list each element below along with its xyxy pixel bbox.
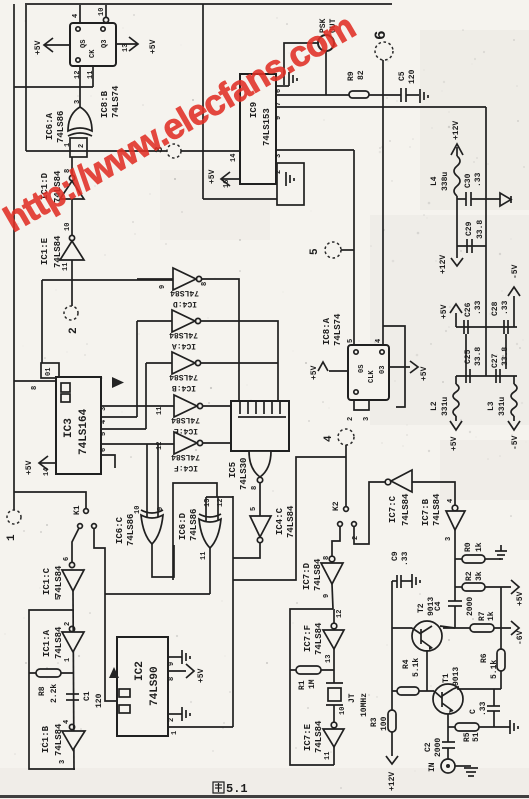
svg-text:10: 10 xyxy=(134,506,142,514)
inverter IC7:C xyxy=(385,479,391,485)
svg-text:5.1: 5.1 xyxy=(226,782,248,796)
svg-text:1: 1 xyxy=(6,534,18,541)
svg-text:IC4:D: IC4:D xyxy=(173,299,197,308)
+5V arrow at IC9 pin16 xyxy=(222,178,240,180)
wire IC4:F output xyxy=(203,442,231,444)
IC8:B 74LS74 flip-flop box xyxy=(70,23,116,66)
wire y580 link xyxy=(233,457,346,580)
svg-text:8: 8 xyxy=(168,677,176,681)
svg-text:IC6:D: IC6:D xyxy=(178,512,188,540)
svg-text:5.1k: 5.1k xyxy=(412,658,421,677)
svg-text:.33: .33 xyxy=(501,300,510,315)
wire IC8:B pin11 down xyxy=(92,66,94,87)
svg-text:1k: 1k xyxy=(475,542,484,552)
wire y594 xyxy=(105,593,210,595)
svg-text:74LS84: 74LS84 xyxy=(54,565,64,598)
svg-text:33.8: 33.8 xyxy=(501,347,510,366)
svg-text:3: 3 xyxy=(363,417,371,421)
wire right rail x486 xyxy=(485,107,487,376)
svg-text:3: 3 xyxy=(74,100,82,104)
wire K2 left to IC7:D xyxy=(332,526,340,556)
svg-text:C: C xyxy=(469,709,478,714)
ground after C5 xyxy=(419,89,421,103)
svg-text:331u: 331u xyxy=(498,397,507,416)
svg-text:IC1:C: IC1:C xyxy=(42,567,52,595)
PSK OUT terminal xyxy=(318,35,334,51)
svg-text:IC7:E: IC7:E xyxy=(303,723,313,751)
svg-text:IC1:A: IC1:A xyxy=(42,629,52,657)
svg-text:+12V: +12V xyxy=(452,121,461,140)
ground at IC2 upper xyxy=(181,650,183,664)
wire K1 right down to IC2 xyxy=(94,528,117,701)
svg-text:74LS84: 74LS84 xyxy=(432,493,442,526)
inverter IC1:B xyxy=(69,724,74,729)
svg-text:IC4:B: IC4:B xyxy=(172,383,196,392)
svg-text:CLK: CLK xyxy=(368,370,376,383)
wire PSK down to R9 line xyxy=(325,51,327,95)
capacitor C27 xyxy=(495,369,497,383)
svg-text:82: 82 xyxy=(357,70,366,80)
wire feedback x203 from top border xyxy=(202,4,204,199)
svg-text:74LS84: 74LS84 xyxy=(171,452,200,461)
svg-text:33.8: 33.8 xyxy=(476,220,485,239)
wire x42 down to IC3 xyxy=(41,280,43,363)
svg-text:2.2k: 2.2k xyxy=(50,684,59,703)
wire to node 2 xyxy=(71,260,73,306)
capacitor C28 xyxy=(503,320,505,334)
svg-text:2: 2 xyxy=(64,622,72,626)
svg-text:QS: QS xyxy=(80,40,88,48)
svg-text:Q3: Q3 xyxy=(101,40,109,48)
svg-text:8: 8 xyxy=(201,282,209,286)
svg-text:IC7:D: IC7:D xyxy=(302,562,312,590)
svg-text:IC4:C: IC4:C xyxy=(275,507,285,535)
svg-text:R7: R7 xyxy=(478,611,487,621)
lower rail with C25 C27 xyxy=(456,375,517,377)
svg-text:74LS86: 74LS86 xyxy=(56,111,66,143)
+5V arrow left of IC8:B xyxy=(45,44,70,46)
wire L4 to C30 line xyxy=(456,196,458,199)
resistor R5 51 xyxy=(448,726,455,728)
svg-text:12: 12 xyxy=(336,610,344,618)
wire IC7:B out down with C4 xyxy=(454,530,456,601)
capacitor C1 xyxy=(66,693,79,695)
wire IC8:A bottom pins loop xyxy=(354,400,369,410)
svg-text:.33: .33 xyxy=(474,300,483,315)
svg-text:74LS84: 74LS84 xyxy=(401,493,411,526)
wire y497 xyxy=(206,496,233,498)
xor gate IC6:C xyxy=(146,444,148,517)
svg-text:+5V: +5V xyxy=(208,169,217,184)
wire T1 emitter down xyxy=(447,714,449,742)
wire T2 base from x392 xyxy=(392,627,412,629)
svg-text:0S: 0S xyxy=(358,365,366,373)
svg-text:IC5: IC5 xyxy=(228,462,238,478)
svg-text:74LS84: 74LS84 xyxy=(286,505,296,538)
svg-text:338u: 338u xyxy=(441,172,450,191)
wire IC2 lower pin to ground xyxy=(168,713,182,715)
switch K1 xyxy=(14,492,86,508)
svg-text:1: 1 xyxy=(171,731,179,735)
svg-text:L3: L3 xyxy=(487,401,496,411)
wire IC3 QA to IC4:E input xyxy=(101,405,174,407)
wire pin with bubble to top border xyxy=(105,5,107,17)
svg-text:5: 5 xyxy=(100,432,108,436)
resistor R2 3k with +5V xyxy=(455,586,462,588)
+5V arrow at IC3 pin14 xyxy=(40,462,56,464)
svg-text:C27: C27 xyxy=(491,353,500,368)
svg-text:IC1:B: IC1:B xyxy=(41,725,51,753)
svg-text:IC8:B: IC8:B xyxy=(100,90,110,118)
svg-text:74LS84: 74LS84 xyxy=(169,330,198,339)
inverter IC1:A xyxy=(69,626,74,631)
wire IC7:E out xyxy=(333,747,335,765)
node 5 xyxy=(325,242,341,258)
svg-text:3: 3 xyxy=(59,760,67,764)
svg-text:2: 2 xyxy=(68,327,80,334)
wire IC7:C input from IC7:B xyxy=(412,482,455,505)
ground triangle right of C30 xyxy=(500,193,511,206)
svg-text:74LS84: 74LS84 xyxy=(54,723,64,756)
IC5 74LS30 box xyxy=(231,401,289,451)
svg-text:IC7:B: IC7:B xyxy=(421,498,431,526)
input box under IC6:A xyxy=(70,138,87,157)
svg-text:5.1k: 5.1k xyxy=(490,660,499,679)
+5V arrow left of IC8:A xyxy=(329,370,348,372)
ground at IC9 pin6 xyxy=(288,72,290,86)
svg-text:R8: R8 xyxy=(38,686,47,696)
wire T1 collector to R6 rail xyxy=(453,687,501,689)
wire branch y326 to x405 xyxy=(383,326,405,407)
svg-text:C28: C28 xyxy=(491,301,500,316)
svg-text:R1: R1 xyxy=(298,680,307,690)
ground right of IN xyxy=(455,765,471,767)
svg-text:-5V: -5V xyxy=(511,264,520,279)
svg-text:74LS153: 74LS153 xyxy=(262,108,272,146)
svg-text:13: 13 xyxy=(325,655,333,663)
svg-text:IN: IN xyxy=(428,762,437,772)
inverter IC4:A xyxy=(137,320,172,322)
capacitor C30 xyxy=(457,198,466,200)
svg-text:.33: .33 xyxy=(474,172,483,187)
node 2 xyxy=(64,306,78,320)
svg-text:8: 8 xyxy=(251,486,259,490)
svg-text:K1: K1 xyxy=(73,505,82,515)
crystal JT xyxy=(326,682,343,684)
svg-text:1M: 1M xyxy=(308,679,317,689)
svg-text:T1: T1 xyxy=(442,673,451,683)
wire T2 collector up xyxy=(440,626,455,628)
wire x26 from top border xyxy=(25,5,27,151)
svg-text:+5V: +5V xyxy=(516,591,525,606)
wire PSK loop xyxy=(284,43,318,85)
svg-text:74LS74: 74LS74 xyxy=(111,85,121,118)
xor gate IC6:D xyxy=(205,497,207,521)
transistor T1 9013 xyxy=(433,684,463,714)
svg-text:1k: 1k xyxy=(487,611,496,621)
svg-text:1: 1 xyxy=(64,658,72,662)
wire IC3 QB stub xyxy=(101,416,137,418)
wire IC4:E output xyxy=(203,405,231,407)
wire IC3 QC stub xyxy=(101,428,146,430)
svg-text:3: 3 xyxy=(275,154,283,158)
svg-text:9: 9 xyxy=(323,594,331,598)
wire IC1:C out main oscillator line xyxy=(73,591,74,770)
resistor R8 xyxy=(29,672,74,674)
svg-text:11: 11 xyxy=(62,263,70,271)
capacitor C .33 to ground xyxy=(493,689,495,706)
svg-text:74LS86: 74LS86 xyxy=(189,509,199,541)
svg-text:4: 4 xyxy=(63,720,71,724)
svg-text:14: 14 xyxy=(43,468,51,476)
IC2 74LS90 box xyxy=(117,637,168,736)
svg-text:12: 12 xyxy=(217,499,225,507)
inductor L3 xyxy=(513,376,515,384)
wire x457 down xyxy=(456,199,458,248)
svg-text:11: 11 xyxy=(156,407,164,415)
svg-text:2: 2 xyxy=(168,718,176,722)
capacitor C26 xyxy=(463,320,465,334)
node 3 xyxy=(167,144,181,158)
svg-text:6: 6 xyxy=(100,448,108,452)
svg-text:2: 2 xyxy=(347,417,355,421)
inverter IC1:C xyxy=(69,562,74,567)
wire x392 vertical T2 base rail xyxy=(391,581,393,710)
wire IC3 QD to IC4:F input xyxy=(101,443,174,445)
svg-text:74LS84: 74LS84 xyxy=(53,235,63,268)
wire IC8:B pin12 down xyxy=(79,66,81,110)
caption 图5.1 xyxy=(213,782,224,793)
svg-text:74LS84: 74LS84 xyxy=(169,372,198,381)
svg-text:+5V: +5V xyxy=(149,39,158,54)
wire IC7:F vertical xyxy=(333,609,335,623)
inverter IC4:B xyxy=(146,362,172,364)
wire K1 left to IC1:C xyxy=(72,528,79,562)
IN terminal xyxy=(441,759,455,773)
svg-text:IC7:F: IC7:F xyxy=(303,625,313,652)
svg-text:C30: C30 xyxy=(464,173,473,188)
wire node6 down to IC8:A xyxy=(382,60,384,345)
svg-text:+5V: +5V xyxy=(34,40,43,55)
wire IC2 pin to ground xyxy=(168,656,182,658)
svg-text:C29: C29 xyxy=(465,221,474,236)
svg-text:6: 6 xyxy=(372,30,390,40)
svg-text:10: 10 xyxy=(98,8,106,16)
svg-text:+5V: +5V xyxy=(440,304,449,319)
svg-text:+5V: +5V xyxy=(197,668,206,683)
frame top border wire xyxy=(25,3,392,5)
svg-text:CK: CK xyxy=(89,49,97,58)
svg-text:IC7:C: IC7:C xyxy=(388,495,398,523)
svg-text:C1: C1 xyxy=(83,691,92,701)
transistor T2 9013 xyxy=(412,621,442,651)
svg-text:L2: L2 xyxy=(430,401,439,411)
svg-text:C26: C26 xyxy=(464,302,473,317)
svg-text:74LS84: 74LS84 xyxy=(314,720,324,753)
svg-text:10MHz: 10MHz xyxy=(360,693,369,717)
inverter IC7:B xyxy=(452,505,458,511)
svg-text:+5V: +5V xyxy=(420,366,429,381)
pin box above IC3 xyxy=(41,363,59,378)
oscillator feedback rectangle xyxy=(29,610,75,769)
svg-text:5: 5 xyxy=(347,339,355,343)
svg-text:7: 7 xyxy=(275,102,283,106)
oscillator right loop rectangle xyxy=(290,609,334,765)
resistor R1 xyxy=(290,669,334,671)
capacitor C25 xyxy=(465,369,467,383)
svg-text:1: 1 xyxy=(64,143,72,147)
svg-text:01: 01 xyxy=(45,368,53,376)
svg-text:T2: T2 xyxy=(417,603,426,613)
svg-text:2000: 2000 xyxy=(434,738,443,757)
svg-text:C5: C5 xyxy=(398,71,407,81)
svg-text:2000: 2000 xyxy=(466,597,475,616)
inverter IC7:F xyxy=(331,623,337,629)
svg-text:C9: C9 xyxy=(391,551,400,561)
svg-text:C25: C25 xyxy=(464,349,473,364)
resistor R4 5.1k xyxy=(392,690,434,692)
clock arrow at IC2 xyxy=(109,667,119,678)
svg-text:3: 3 xyxy=(100,407,108,411)
svg-text:-6V: -6V xyxy=(516,630,525,645)
svg-text:9: 9 xyxy=(168,662,176,666)
wire feedback y280 xyxy=(42,279,173,281)
svg-text:6: 6 xyxy=(63,557,71,561)
svg-text:+5V: +5V xyxy=(310,365,319,380)
frame left border wire xyxy=(13,4,15,510)
wire to IC1:D xyxy=(71,157,73,175)
ground right of C9 xyxy=(411,574,413,588)
svg-text:10: 10 xyxy=(64,223,72,231)
wire node3 line xyxy=(26,150,167,152)
svg-text:3: 3 xyxy=(445,537,453,541)
svg-text:4: 4 xyxy=(323,435,335,442)
+5V arrow at IC2 xyxy=(168,670,186,672)
svg-text:33.8: 33.8 xyxy=(474,347,483,366)
svg-text:74LS86: 74LS86 xyxy=(126,514,136,546)
svg-text:.33: .33 xyxy=(401,551,410,566)
+12V arrow at R3 bottom xyxy=(386,756,398,764)
NAND output gate of IC5 xyxy=(249,451,271,477)
svg-text:R6: R6 xyxy=(480,653,489,663)
svg-text:JT: JT xyxy=(348,693,357,703)
svg-text:11: 11 xyxy=(200,552,208,560)
svg-text:-5V: -5V xyxy=(511,435,520,450)
svg-text:74LS84: 74LS84 xyxy=(313,558,323,591)
wire T2 emitter down to T1 base xyxy=(426,650,428,691)
svg-text:4: 4 xyxy=(375,339,383,343)
IC8:A 74LS74 box xyxy=(348,345,389,400)
inverter IC1:E xyxy=(69,235,74,240)
svg-text:13: 13 xyxy=(204,499,212,507)
resistor R9 xyxy=(349,91,369,98)
+12V arrow below C29 xyxy=(456,248,458,258)
svg-text:8: 8 xyxy=(31,386,39,390)
svg-text:4: 4 xyxy=(100,420,108,424)
svg-text:IC8:A: IC8:A xyxy=(322,317,332,345)
svg-text:R5: R5 xyxy=(463,732,472,742)
wire IC5 out to IC4:C xyxy=(259,483,261,516)
svg-text:9: 9 xyxy=(275,116,283,120)
node 1 xyxy=(7,510,21,524)
IC9 74LS153 box xyxy=(240,74,276,184)
svg-text:+5V: +5V xyxy=(25,460,34,475)
svg-text:IC1:E: IC1:E xyxy=(40,237,50,265)
svg-text:74LS84: 74LS84 xyxy=(170,288,199,297)
resistor R6 5.1k xyxy=(500,628,502,649)
wire x137 vertical xyxy=(136,321,138,417)
wire IC9 pin9 long line right xyxy=(276,106,486,108)
wire node4 to K2 xyxy=(345,445,347,506)
svg-text:R2: R2 xyxy=(465,571,474,581)
-5V arrow xyxy=(513,296,515,327)
wire x501 from R2 to R7 xyxy=(500,587,502,628)
wire x233 down to IC2 pin1 xyxy=(232,496,234,727)
svg-text:2: 2 xyxy=(352,536,360,540)
svg-text:IC2: IC2 xyxy=(134,661,146,681)
svg-text:3k: 3k xyxy=(475,571,484,581)
ground at R5 right xyxy=(509,720,511,734)
svg-text:R9: R9 xyxy=(347,71,356,81)
svg-text:74LS74: 74LS74 xyxy=(333,313,343,346)
svg-text:4: 4 xyxy=(72,14,80,18)
wire pin to top border xyxy=(79,5,81,23)
svg-text:100: 100 xyxy=(380,716,389,731)
resistor R7 1k with -6V xyxy=(443,627,470,629)
node 4 xyxy=(338,429,354,445)
inverter IC7:E xyxy=(331,722,337,728)
svg-text:74LS164: 74LS164 xyxy=(78,408,90,455)
svg-text:120: 120 xyxy=(408,69,417,84)
wire node3 to IC9 xyxy=(181,150,240,152)
frame bottom edge xyxy=(0,795,529,798)
inverter IC1:D xyxy=(69,175,74,180)
ground at IC2 lower xyxy=(181,707,183,721)
wire IC9 pin6 to ground xyxy=(276,85,289,87)
wire IC3 pin stubs lower xyxy=(101,455,115,468)
switch K2 xyxy=(344,507,349,512)
inductor L4 xyxy=(454,156,460,196)
wire IC7:D out to loop xyxy=(332,584,333,609)
svg-text:14: 14 xyxy=(230,154,238,162)
svg-text:74LS84: 74LS84 xyxy=(54,626,64,659)
svg-text:IC6:A: IC6:A xyxy=(45,112,55,140)
inverter IC7:D xyxy=(329,556,335,562)
+5V arrow right of IC8:B xyxy=(116,43,137,45)
svg-text:11: 11 xyxy=(87,71,95,79)
svg-text:R0: R0 xyxy=(464,542,473,552)
svg-text:+5V: +5V xyxy=(450,436,459,451)
wire node5 to x354 xyxy=(341,249,354,251)
svg-text:51: 51 xyxy=(472,732,481,742)
inductor L2 xyxy=(455,376,457,384)
capacitor C29 xyxy=(457,245,486,247)
svg-text:120: 120 xyxy=(95,693,104,708)
svg-text:5: 5 xyxy=(309,248,321,255)
svg-text:.33: .33 xyxy=(479,701,488,716)
wire IC6:D output xyxy=(209,548,211,594)
svg-text:IC4:F: IC4:F xyxy=(174,463,198,472)
resistor R3 100 xyxy=(388,710,396,732)
IC3 74LS164 box xyxy=(56,377,101,474)
svg-text:74LS30: 74LS30 xyxy=(239,458,249,490)
svg-text:5: 5 xyxy=(250,507,258,511)
wire pin8 line to IC3 xyxy=(14,380,56,382)
svg-text:+12V: +12V xyxy=(439,255,448,274)
svg-text:IC4:A: IC4:A xyxy=(172,341,196,350)
wire IC4:D output xyxy=(202,279,239,401)
svg-text:L4: L4 xyxy=(430,176,439,186)
